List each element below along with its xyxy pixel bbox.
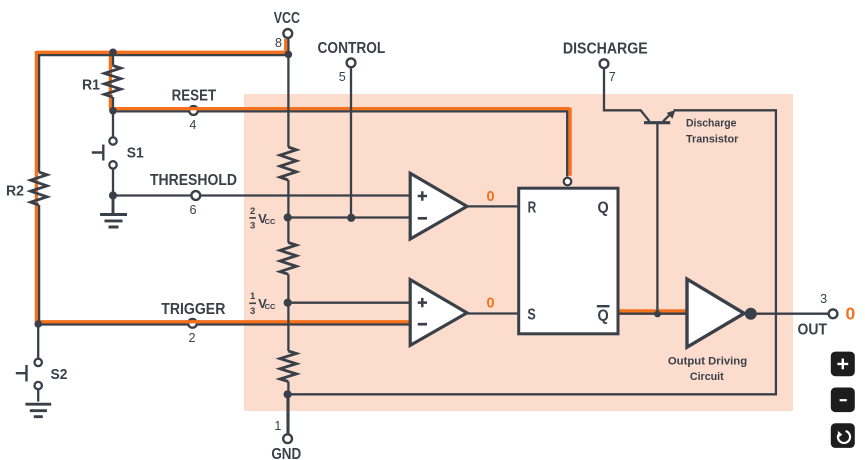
wire: RESET horizontal and descent to latch R bubble bbox=[113, 111, 567, 176]
wire: comparator 1 output to latch R input bbox=[466, 205, 519, 207]
wire: RESET highlight over pin 4 bbox=[186, 107, 201, 110]
transistor Q1 emitter with arrow bbox=[663, 114, 670, 121]
wire: highlighted R1 branch + RESET run bbox=[109, 53, 570, 176]
wire: highlighted Q-bar to output buffer bbox=[618, 309, 688, 312]
svg-text:S1: S1 bbox=[127, 146, 144, 162]
svg-text:S2: S2 bbox=[51, 367, 68, 383]
resistor divider middle (2/3 to 1/3 Vcc) bbox=[280, 243, 296, 275]
junction: TRIGGER corner / S2 node bbox=[34, 320, 42, 328]
wire: buffer output to OUT pin bbox=[750, 313, 833, 315]
svg-text:TRIGGER: TRIGGER bbox=[161, 301, 225, 318]
wire: comparator 2 output to latch S input bbox=[466, 312, 519, 314]
button zoom out (-) bbox=[831, 388, 855, 413]
pin 8 VCC terminal bbox=[283, 29, 292, 38]
junction: 1/3 Vcc node bbox=[284, 299, 292, 307]
svg-text:GND: GND bbox=[271, 446, 301, 460]
latch R inverting bubble bbox=[564, 178, 572, 186]
svg-text:R2: R2 bbox=[6, 184, 24, 200]
svg-text:DISCHARGE: DISCHARGE bbox=[563, 40, 648, 57]
pin 2 TRIGGER terminal bbox=[188, 319, 197, 328]
pin 3 OUT terminal bbox=[829, 309, 838, 318]
svg-text:CC: CC bbox=[265, 217, 276, 226]
transistor Q1 base bar bbox=[644, 121, 670, 124]
wire: left vertical from top rail to TRIGGER corner, then TRIGGER horizontal bbox=[38, 54, 412, 325]
button reset view (rotate icon) bbox=[831, 423, 855, 448]
wire: GND pin lead bbox=[286, 394, 288, 434]
comparator 1 - symbol bbox=[418, 217, 427, 220]
svg-text:3: 3 bbox=[250, 221, 255, 232]
svg-text:S: S bbox=[527, 307, 535, 324]
junction: VCC pin to rail bbox=[285, 51, 293, 59]
switch S2 push actuator bbox=[16, 365, 27, 382]
svg-text:R1: R1 bbox=[82, 77, 100, 93]
svg-text:OUT: OUT bbox=[798, 321, 828, 338]
wire: 2/3 Vcc node to comparator 1 - input bbox=[288, 216, 411, 218]
node label 1/3 Vcc bbox=[249, 291, 276, 317]
pin 1 GND terminal bbox=[283, 434, 292, 443]
svg-text:3: 3 bbox=[250, 306, 255, 317]
svg-text:Q: Q bbox=[598, 307, 609, 324]
pin 5 CONTROL terminal bbox=[347, 58, 356, 67]
svg-text:4: 4 bbox=[189, 118, 196, 132]
junction: 2/3 Vcc node bbox=[284, 213, 292, 221]
resistor divider bottom (1/3 Vcc to GND) bbox=[280, 351, 296, 382]
wire: CONTROL vertical to 2/3 Vcc node bbox=[350, 67, 352, 218]
op-amp comparator 2 (trigger) bbox=[410, 280, 467, 346]
ground symbol under S2 bbox=[25, 404, 51, 417]
comparator 2 - symbol bbox=[418, 323, 427, 326]
wire: VCC vertical / voltage divider spine bbox=[287, 39, 289, 435]
junction: R1 top on VCC rail bbox=[109, 49, 117, 57]
wire: TRIGGER highlight over pin 2 bbox=[185, 320, 200, 323]
switch S1 push actuator bbox=[92, 145, 104, 161]
svg-text:Transistor: Transistor bbox=[686, 134, 739, 146]
comparator 2 + symbol bbox=[418, 298, 427, 307]
resistor divider top (VCC to 2/3 Vcc) bbox=[280, 147, 296, 180]
svg-text:1: 1 bbox=[250, 291, 256, 302]
svg-text:0: 0 bbox=[486, 189, 494, 205]
svg-text:Discharge: Discharge bbox=[686, 118, 737, 130]
resistor R1 bbox=[104, 66, 120, 98]
wire: THRESHOLD horizontal to comparator 1 + input bbox=[113, 194, 412, 196]
switch S1 bottom terminal bbox=[109, 161, 116, 168]
junction: CONTROL joins 2/3 Vcc wire bbox=[347, 214, 355, 222]
555 internal block background bbox=[244, 94, 793, 411]
svg-text:CC: CC bbox=[265, 302, 276, 311]
svg-text:8: 8 bbox=[275, 36, 282, 50]
svg-text:0: 0 bbox=[486, 296, 494, 312]
svg-text:CONTROL: CONTROL bbox=[318, 40, 386, 57]
svg-text:RESET: RESET bbox=[172, 88, 217, 105]
SR latch U1 box bbox=[519, 188, 618, 334]
wire: highlighted VCC net (pin8 stub, top rail, left vertical, TRIGGER run) bbox=[35, 39, 411, 322]
switch S1 top terminal bbox=[109, 137, 116, 144]
svg-text:Circuit: Circuit bbox=[690, 371, 724, 383]
wire: bottom ground rail and right rail to transistor emitter bbox=[288, 110, 776, 394]
svg-text:VCC: VCC bbox=[274, 10, 300, 27]
pin 7 DISCHARGE terminal bbox=[600, 59, 609, 68]
transistor Q1 collector lead down to Q-bar wire bbox=[656, 123, 658, 315]
output driving buffer triangle bbox=[687, 279, 744, 347]
wire: S1 chain (RESET junction to S1, S1 to THRESHOLD junction) bbox=[112, 111, 114, 195]
wire: R1 branch vertical (top rail to RESET) bbox=[112, 54, 114, 111]
node label 2/3 Vcc bbox=[249, 206, 276, 232]
op-amp comparator 1 (threshold) bbox=[410, 173, 467, 239]
wire: latch Q-bar output to buffer bbox=[618, 313, 688, 315]
junction: divider bottom / ground rail node bbox=[284, 390, 292, 398]
switch S2 top terminal bbox=[35, 359, 42, 366]
svg-text:THRESHOLD: THRESHOLD bbox=[150, 172, 237, 189]
comparator 1 + symbol bbox=[418, 191, 427, 200]
svg-text:R: R bbox=[528, 199, 537, 216]
svg-text:7: 7 bbox=[609, 70, 616, 84]
svg-text:1: 1 bbox=[274, 419, 281, 433]
button zoom in (+) bbox=[831, 352, 855, 377]
wire: top VCC rail (dark) bbox=[39, 54, 288, 56]
junction: buffer output node bbox=[745, 308, 757, 320]
junction: S1 / THRESHOLD / ground node bbox=[109, 191, 117, 199]
svg-text:6: 6 bbox=[189, 203, 196, 217]
switch S2 bottom terminal bbox=[35, 382, 42, 389]
ground symbol under S1 bbox=[100, 196, 127, 228]
svg-text:2: 2 bbox=[250, 206, 255, 217]
svg-text:Q: Q bbox=[598, 200, 609, 217]
svg-text:0: 0 bbox=[846, 304, 856, 324]
pin 4 RESET terminal bbox=[189, 106, 198, 115]
svg-text:5: 5 bbox=[339, 70, 346, 84]
svg-text:3: 3 bbox=[820, 292, 827, 306]
svg-text:2: 2 bbox=[188, 331, 195, 345]
wire: 1/3 Vcc node to comparator 2 + input bbox=[288, 302, 411, 304]
pin 6 THRESHOLD terminal bbox=[191, 191, 200, 200]
junction: R1 / RESET / S1 node bbox=[109, 107, 117, 115]
resistor R2 (on left vertical) bbox=[31, 172, 47, 205]
junction: transistor lead on Q-bar wire bbox=[654, 311, 661, 318]
wire: S2 chain below TRIGGER corner bbox=[37, 325, 39, 402]
svg-text:Output Driving: Output Driving bbox=[668, 355, 747, 367]
wire: DISCHARGE pin 7 lead to transistor bbox=[604, 67, 649, 122]
